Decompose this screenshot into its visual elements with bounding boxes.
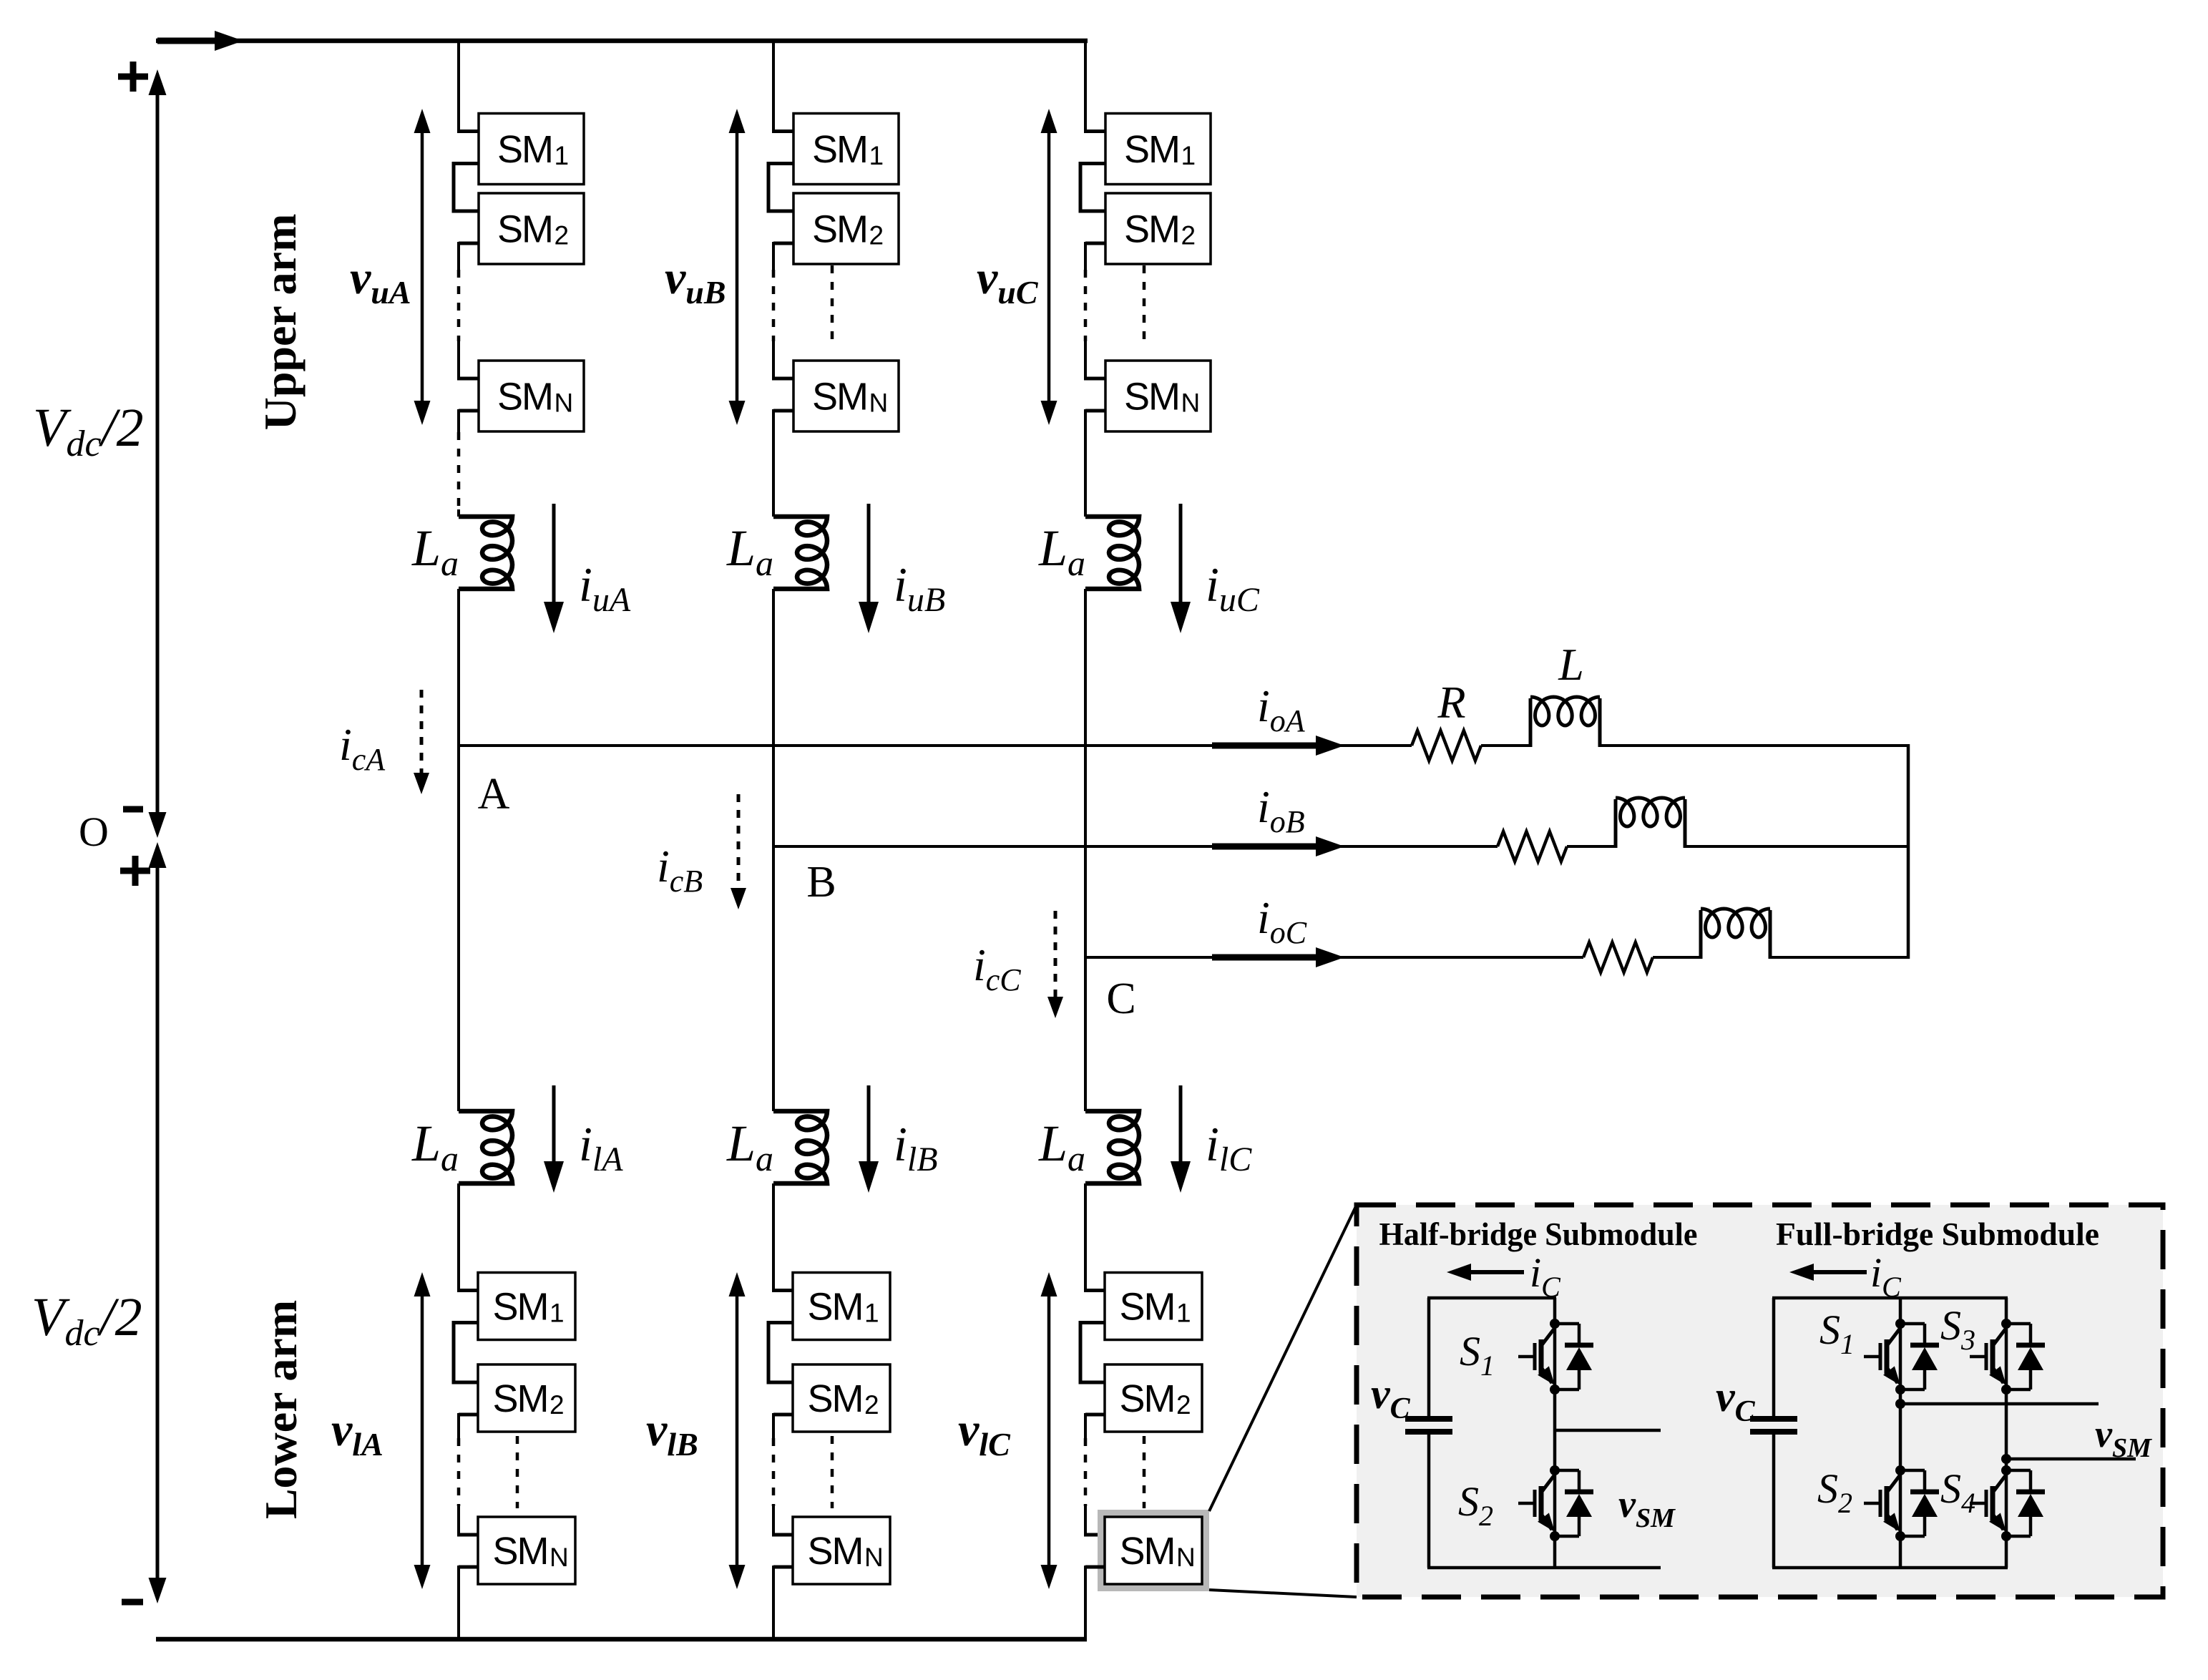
svg-text:A: A [478,770,510,819]
svg-text:N: N [864,1543,884,1572]
load inductor L phase B [1614,799,1618,848]
svg-text:1: 1 [1181,141,1196,170]
half-bridge bottom wire [1427,1566,1661,1570]
IGBT S1 (half-bridge) [1550,1319,1560,1329]
half-bridge switch leg [1553,1298,1557,1568]
svg-text:SM: SM [497,376,552,419]
svg-text:L: L [1558,639,1584,690]
submodule SM2 upper arm phase B [793,193,899,264]
diode D2 (half-bridge) [1555,1469,1579,1473]
svg-text:SM: SM [1124,208,1179,251]
IGBT S4 (full-bridge) [2001,1465,2011,1475]
svg-text:2: 2 [1181,221,1196,250]
wire top bus to SM1 phase A upper [457,41,460,132]
wire bottom DC bus (-) [156,1637,1087,1642]
wire right bus (neutral) [1907,744,1910,959]
arm voltage span arrow vuB [736,130,739,404]
half-bridge left rail upper [1427,1298,1431,1416]
svg-text:2: 2 [869,221,884,250]
svg-text:SM: SM [812,376,867,419]
wire SM2 down-link solid upper A [459,242,479,245]
arm inductor La upper C [1085,517,1139,589]
wire link SM1-SM2 upper B [768,164,793,212]
svg-text:SM: SM [493,1286,548,1329]
svg-text:N: N [549,1543,569,1572]
svg-text:SM: SM [1120,1377,1175,1420]
diode (full-bridge S3) [2006,1322,2031,1326]
wire top bus to SM1 phase C upper [1084,41,1087,132]
wire SMN to bottom bus A [459,1566,478,1569]
wire inductor to SM1 lower C [1084,1183,1087,1291]
submodule SM2 lower arm phase B [793,1364,890,1432]
wire inductor to SM1 lower B [772,1183,775,1291]
half-bridge top wire [1427,1296,1556,1300]
wire SM2 down-link dashed upper B [772,270,776,341]
wire output line node C [1084,956,1583,959]
wire inductor to node A [457,589,460,747]
wire top DC bus (+) [156,39,1088,44]
wire link SM1-SM2 lower A [454,1323,478,1383]
full-bridge left rail upper [1772,1298,1776,1416]
svg-text:SM: SM [493,1530,548,1573]
svg-text:SM: SM [808,1286,863,1329]
circulating current arrow icB [737,794,741,891]
wire SM2 down-link lower C [1085,1413,1105,1417]
arm current arrow ilC [1179,1085,1183,1164]
callout line lower (SMN to inset) [1209,1590,1357,1597]
svg-text:1: 1 [555,141,570,170]
Vdc measurement arrow lower segment [156,849,160,1597]
svg-text:R: R [1437,677,1465,728]
wire top bus to SM1 phase B upper [772,41,775,132]
wire inductor to node B [772,589,775,848]
svg-text:2: 2 [864,1390,879,1420]
svg-text:SM: SM [808,1530,863,1573]
svg-text:C: C [1106,975,1135,1023]
full-bridge iC arrow [1807,1270,1867,1274]
wire link SM1-SM2 upper A [454,164,479,212]
wire link SM1-SM2 upper C [1080,164,1105,212]
wire R to L phase C [1653,956,1702,959]
wire node to lower inductor phase A [457,746,460,1111]
svg-text:SM: SM [1120,1530,1175,1573]
wire SMN up-link solid upper B [772,341,775,379]
svg-text:N: N [555,389,574,418]
capacitor C (full-bridge) [1750,1416,1797,1422]
svg-text:Upper arm: Upper arm [255,214,306,431]
svg-text:2: 2 [555,221,570,250]
submodule SM2 upper arm phase C [1105,193,1211,264]
submodule SMN lower arm phase A [478,1517,575,1584]
wire R to L phase B [1567,845,1617,848]
load inductor L phase A [1529,698,1533,747]
wire output line node B [772,845,1498,848]
arm current arrow ilA [552,1085,556,1164]
output current arrow ioA [1212,743,1317,749]
submodule SM2 lower arm phase C [1105,1364,1202,1432]
plus sign below O [120,868,150,874]
wire SMN up-link solid upper A [457,341,460,379]
callout line upper (SMN to inset) [1209,1205,1357,1511]
capacitor C (half-bridge) [1405,1416,1452,1422]
full-bridge upper output wire [1900,1402,2099,1406]
svg-text:N: N [1176,1543,1196,1572]
half-bridge iC arrow [1464,1270,1524,1274]
IGBT S1 (full-bridge) [1895,1319,1905,1329]
arm inductor La upper B [773,517,827,589]
submodule SM2 upper arm phase A [479,193,584,264]
svg-text:SM: SM [808,1377,863,1420]
resistor R phase B [1498,831,1567,861]
half-bridge left rail lower [1427,1435,1431,1568]
wire SM2 down-link lower A [459,1413,478,1417]
IGBT S3 (full-bridge) [2001,1319,2011,1329]
full-bridge left rail lower [1772,1435,1776,1568]
svg-text:SM: SM [812,128,867,171]
diode (full-bridge S2) [1900,1469,1925,1473]
dotted continuation below SM2 upper B [831,265,834,341]
wire SMN to arm inductor upper A [459,409,479,413]
submodule SM1 upper arm phase C [1105,114,1211,185]
svg-text:O: O [79,809,109,855]
full-bridge bottom wire [1772,1566,2008,1570]
full-bridge top wire [1772,1296,2008,1300]
submodule SM1 upper arm phase B [793,114,899,185]
dotted continuation below SM2 lower A [516,1436,519,1508]
dotted continuation below SM2 lower C [1143,1436,1146,1508]
resistor R phase A [1412,731,1481,761]
arm voltage span arrow vuA [421,130,424,404]
svg-text:N: N [869,389,889,418]
submodule SM1 lower arm phase A [478,1273,575,1340]
arm current arrow iuC [1179,504,1183,605]
full-bridge leg S3/S4 [2005,1298,2008,1568]
wire link SM1-SM2 lower B [768,1323,793,1383]
wire output line node A [457,744,1412,747]
svg-text:1: 1 [549,1299,565,1328]
wire SMN to bottom bus C [1085,1566,1105,1569]
half-bridge mid output wire [1555,1429,1661,1432]
dotted continuation below SM2 lower B [831,1436,834,1508]
diode D1 (half-bridge) [1555,1322,1579,1326]
wire L to right bus phase A [1600,744,1910,747]
wire SM2 down-link dashed upper A [457,270,461,341]
svg-text:Full-bridge Submodule: Full-bridge Submodule [1776,1216,2099,1252]
svg-text:1: 1 [869,141,884,170]
wire SMN to bottom bus B [773,1566,793,1569]
submodule SMN upper arm phase A [479,361,584,431]
submodule SM1 lower arm phase B [793,1273,890,1340]
output current arrow ioB [1212,844,1317,850]
arm current arrow iuB [867,504,871,605]
arm voltage span arrow vlC [1047,1294,1051,1568]
svg-text:1: 1 [1176,1299,1191,1328]
submodule SMN lower arm phase C [1105,1517,1202,1584]
svg-text:2: 2 [1176,1390,1191,1420]
dotted continuation below SM2 upper C [1143,265,1146,341]
wire SMN to arm inductor upper C [1085,409,1105,413]
wire inductor to SM1 lower A [457,1183,460,1291]
wire inductor to node C [1084,589,1087,959]
svg-text:SM: SM [497,208,552,251]
svg-text:1: 1 [864,1299,879,1328]
arm inductor La lower A [459,1111,512,1183]
arm inductor La upper A [459,517,512,589]
svg-text:SM: SM [1124,376,1179,419]
resistor R phase C [1583,942,1653,972]
circulating current arrow icA [420,690,424,776]
wire L to right bus phase C [1770,956,1910,959]
svg-text:SM: SM [493,1377,548,1420]
svg-text:SM: SM [497,128,552,171]
inset submodule detail box [1357,1205,2163,1597]
wire SM2 down-link dashed upper C [1084,270,1088,341]
svg-text:Half-bridge Submodule: Half-bridge Submodule [1379,1216,1698,1252]
load inductor L phase C [1699,910,1703,959]
wire node to lower inductor phase B [772,846,775,1111]
svg-text:SM: SM [812,208,867,251]
arrow on top bus (dc current) [157,38,216,44]
arm inductor La lower C [1085,1111,1139,1183]
IGBT S2 (full-bridge) [1895,1465,1905,1475]
arm voltage span arrow vlA [421,1294,424,1568]
arm voltage span arrow vuC [1047,130,1051,404]
wire SMN to arm inductor upper B [773,409,793,413]
plus sign top [118,74,148,80]
wire L to right bus phase B [1685,845,1910,848]
submodule SMN upper arm phase B [793,361,899,431]
submodule SM1 upper arm phase A [479,114,584,185]
submodule SM2 lower arm phase A [478,1364,575,1432]
wire SMN up-link solid upper C [1084,341,1087,379]
arm voltage span arrow vlB [736,1294,739,1568]
minus sign above O [123,806,143,813]
full-bridge lower output wire [2006,1457,2136,1461]
svg-text:B: B [806,858,836,907]
svg-text:Lower arm: Lower arm [255,1300,306,1519]
arm current arrow ilB [867,1085,871,1164]
full-bridge leg S1/S2 [1899,1298,1902,1568]
wire link SM1-SM2 lower C [1080,1323,1105,1383]
arm current arrow iuA [552,504,556,605]
wire SM2 down-link lower B [773,1413,793,1417]
submodule SMN lower arm phase B [793,1517,890,1584]
Vdc measurement arrow upper segment [156,79,160,831]
svg-text:N: N [1181,389,1201,418]
submodule SM1 lower arm phase C [1105,1273,1202,1340]
wire R to L phase A [1481,744,1532,747]
diode (full-bridge S4) [2006,1469,2031,1473]
wire SM2 down-link solid upper B [773,242,793,245]
circulating current arrow icC [1054,911,1057,1000]
svg-text:2: 2 [549,1390,565,1420]
wire node to lower inductor phase C [1084,957,1087,1111]
minus sign bottom [122,1599,143,1606]
submodule SMN upper arm phase C [1105,361,1211,431]
output current arrow ioC [1212,954,1317,961]
IGBT S2 (half-bridge) [1550,1465,1560,1475]
gray highlight around SMN (callout source) [1098,1510,1209,1591]
svg-text:SM: SM [1120,1286,1175,1329]
wire SM2 down-link solid upper C [1085,242,1105,245]
diode (full-bridge S1) [1900,1322,1925,1326]
arm inductor La lower B [773,1111,827,1183]
svg-text:SM: SM [1124,128,1179,171]
